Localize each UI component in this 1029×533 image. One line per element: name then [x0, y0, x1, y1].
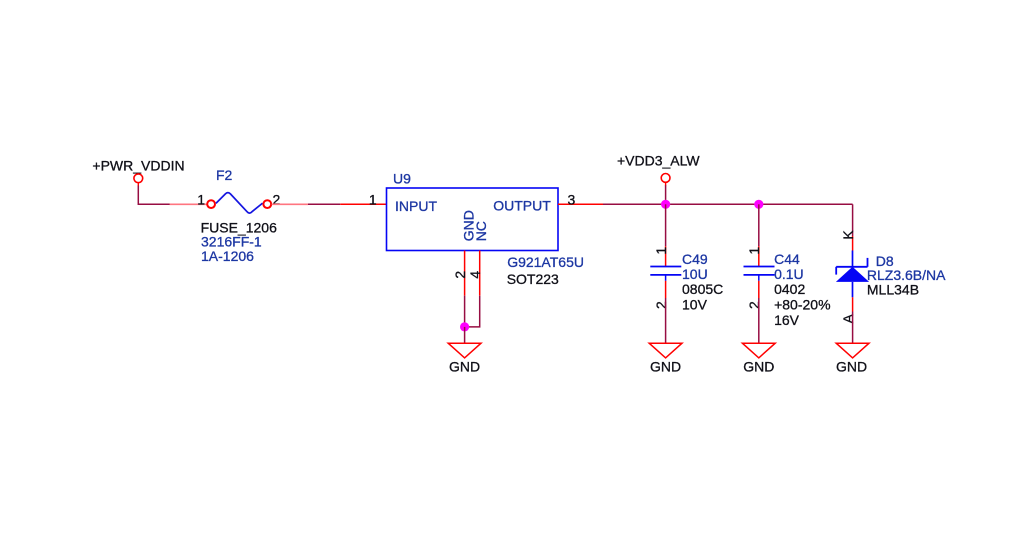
- diode D8 zener symbol: [836, 251, 869, 298]
- svg-text:GND: GND: [650, 358, 681, 374]
- junction dot under U9: [460, 322, 469, 331]
- svg-text:C49: C49: [682, 251, 708, 267]
- ground symbol under C49: [649, 343, 682, 374]
- wire D8 to ground: [852, 312, 854, 344]
- U9 pin 3 lead: [558, 203, 603, 205]
- U9 pin 1 lead: [340, 203, 386, 205]
- fuse F2: [207, 193, 271, 214]
- wire rail to C49: [665, 204, 667, 246]
- svg-text:NC: NC: [473, 221, 489, 241]
- capacitor C49: [650, 267, 681, 281]
- svg-text:INPUT: INPUT: [395, 198, 437, 214]
- svg-text:1: 1: [369, 191, 377, 207]
- diode D8 anode pin lead: [852, 297, 854, 311]
- wire output rail: [603, 203, 853, 205]
- svg-text:OUTPUT: OUTPUT: [493, 198, 551, 214]
- svg-text:10U: 10U: [682, 266, 708, 282]
- svg-text:U9: U9: [393, 170, 411, 186]
- svg-text:MLL34B: MLL34B: [867, 282, 919, 298]
- wire +PWR_VDDIN down and right to fuse: [138, 186, 170, 205]
- svg-text:2: 2: [653, 301, 669, 309]
- svg-text:C44: C44: [774, 251, 800, 267]
- wire U9 pin 4 to ground junction: [465, 296, 480, 327]
- wire rail corner down to D8: [852, 204, 854, 236]
- ground symbol under C44: [742, 343, 775, 374]
- wire fuse to U9: [308, 203, 340, 205]
- wire junction to U9 ground symbol: [464, 327, 466, 343]
- svg-text:4: 4: [467, 271, 483, 279]
- power symbol +PWR_VDDIN: [92, 158, 184, 186]
- svg-text:GND: GND: [743, 358, 774, 374]
- IC U9 regulator body: [387, 188, 559, 251]
- svg-text:RLZ3.6B/NA: RLZ3.6B/NA: [867, 267, 946, 283]
- junction dot at C49: [661, 200, 670, 209]
- svg-text:F2: F2: [216, 167, 233, 183]
- svg-text:SOT223: SOT223: [507, 271, 559, 287]
- power symbol +VDD3_ALW: [617, 153, 700, 186]
- svg-text:2: 2: [452, 271, 468, 279]
- capacitor C44 pin 2 lead: [758, 281, 760, 298]
- ground symbol under U9: [448, 343, 481, 374]
- svg-text:2: 2: [746, 301, 762, 309]
- svg-text:1: 1: [197, 192, 205, 208]
- svg-text:G921AT65U: G921AT65U: [507, 254, 584, 270]
- wire rail to C44: [758, 204, 760, 246]
- svg-text:16V: 16V: [774, 312, 800, 328]
- svg-text:0805C: 0805C: [682, 281, 723, 297]
- wire U9 pin 2 to ground junction: [464, 296, 466, 327]
- diode D8 cathode pin lead: [852, 236, 854, 251]
- svg-text:A: A: [840, 314, 856, 324]
- capacitor C49 pin 2 lead: [665, 281, 667, 298]
- wire +VDD3_ALW to rail: [665, 185, 667, 204]
- svg-text:GND: GND: [449, 358, 480, 374]
- svg-text:1: 1: [653, 247, 669, 255]
- svg-text:+80-20%: +80-20%: [774, 297, 830, 313]
- capacitor C49 pin 1 lead: [665, 246, 667, 266]
- svg-text:0.1U: 0.1U: [774, 266, 804, 282]
- svg-text:+PWR_VDDIN: +PWR_VDDIN: [92, 158, 184, 174]
- U9 pin 4 lead: [479, 251, 481, 296]
- svg-text:3: 3: [568, 191, 576, 207]
- fuse F2 pin 1 lead: [170, 203, 207, 205]
- capacitor C44: [744, 267, 775, 281]
- svg-text:1: 1: [746, 247, 762, 255]
- U9 pin 2 lead: [464, 251, 466, 296]
- junction dot at C44: [754, 200, 763, 209]
- ground symbol under D8: [836, 343, 869, 374]
- capacitor C44 pin 1 lead: [758, 246, 760, 266]
- fuse F2 pin 2 lead: [272, 203, 308, 205]
- wire C49 to ground: [665, 298, 667, 343]
- svg-text:K: K: [840, 230, 856, 240]
- svg-text:0402: 0402: [774, 281, 805, 297]
- svg-text:1A-1206: 1A-1206: [201, 248, 254, 264]
- svg-text:10V: 10V: [682, 297, 708, 313]
- svg-text:GND: GND: [836, 358, 867, 374]
- svg-text:+VDD3_ALW: +VDD3_ALW: [617, 153, 700, 169]
- wire C44 to ground: [758, 298, 760, 343]
